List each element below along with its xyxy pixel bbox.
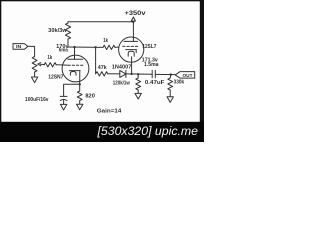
- wire R2 to V1 grid: [56, 64, 67, 66]
- pot wiper arrow: [38, 63, 44, 66]
- resistor R5 820 (cathode bias): [77, 84, 82, 104]
- svg-text:IN: IN: [16, 44, 21, 49]
- svg-text:47k: 47k: [98, 65, 108, 71]
- top B+ rail wire: [68, 21, 133, 23]
- wire IN to volume pot: [28, 46, 34, 56]
- wire 170v node run (V1 plate to R3): [68, 46, 103, 48]
- frame right edge: [200, 0, 204, 122]
- capacitor C1 100uF/16v (cathode bypass): [60, 96, 67, 104]
- resistor R6 120k/1w (cathode load): [136, 74, 141, 93]
- tube V1 12SN7 envelope: [62, 55, 89, 82]
- wire 47k branch vertical: [95, 47, 97, 74]
- V2 grid (dashed): [123, 45, 140, 47]
- wire cathode node to C1: [64, 84, 80, 96]
- resistor R2 1k (grid stopper V1): [44, 63, 56, 67]
- ground (330k): [167, 97, 173, 103]
- svg-text:6ma: 6ma: [59, 48, 69, 54]
- wire diode to cathode node: [126, 73, 152, 75]
- svg-text:330k: 330k: [174, 79, 185, 85]
- resistor R3 1k (grid stopper V2): [103, 45, 115, 49]
- ground (120k): [135, 93, 141, 99]
- node dot B+: [132, 21, 134, 23]
- svg-text:1k: 1k: [47, 55, 52, 61]
- white background: [0, 0, 204, 142]
- caption band: [0, 122, 204, 142]
- svg-text:1N4007: 1N4007: [112, 65, 132, 71]
- capacitor C2 0.47uF (output): [152, 70, 155, 77]
- V1 cathode: [69, 71, 80, 85]
- diode D1 1N4007: [120, 70, 126, 77]
- ground (820): [77, 104, 83, 110]
- svg-text:0.47uF: 0.47uF: [145, 80, 165, 86]
- svg-text:+350v: +350v: [125, 10, 147, 17]
- +350v supply arrow: [131, 17, 135, 21]
- svg-text:[530x320] upic.me: [530x320] upic.me: [97, 124, 199, 138]
- frame left edge: [0, 0, 1, 123]
- V2 cathode: [126, 50, 137, 74]
- wire pot bottom: [34, 72, 36, 77]
- IN connector J1: [13, 44, 28, 50]
- svg-text:100uF/16v: 100uF/16v: [25, 97, 49, 103]
- wire R3 to V2 grid: [115, 46, 119, 48]
- V1 plate: [68, 47, 83, 59]
- svg-text:30k/3w: 30k/3w: [48, 28, 67, 34]
- node dot V2 cathode: [131, 73, 133, 75]
- svg-text:Gain=14: Gain=14: [97, 108, 122, 114]
- wire 47k to diode: [108, 73, 120, 75]
- wire cap to output node: [155, 73, 175, 75]
- resistor R4 47k: [96, 72, 108, 76]
- svg-text:12SL7: 12SL7: [142, 44, 156, 50]
- svg-text:1.5ma: 1.5ma: [144, 62, 159, 68]
- frame top edge: [0, 0, 204, 1]
- ground (pot): [31, 77, 37, 83]
- wire wiper to R2: [43, 64, 46, 66]
- svg-text:12SN7: 12SN7: [48, 75, 63, 81]
- V2 plate: [124, 40, 138, 42]
- resistor R1 30k/3w (plate load): [65, 22, 70, 47]
- ground (C1): [60, 104, 66, 110]
- svg-text:120k/1w: 120k/1w: [113, 80, 131, 86]
- resistor R7 330k (output load): [168, 75, 173, 97]
- svg-text:1k: 1k: [103, 38, 108, 44]
- svg-text:OUT: OUT: [183, 73, 193, 79]
- node dot V1 cathode: [79, 83, 81, 85]
- node dot V1 plate tap: [73, 46, 75, 48]
- potentiometer VR1 (volume): [32, 57, 37, 73]
- V1 grid (dashed): [68, 64, 84, 66]
- tube V2 12SL7 envelope: [119, 37, 144, 62]
- svg-text:820: 820: [85, 93, 95, 99]
- node dot 120k tap: [137, 73, 139, 75]
- node dot output: [170, 73, 172, 75]
- OUT connector J2: [175, 72, 195, 79]
- wire B+ down to V2 plate: [132, 22, 134, 42]
- node dot 47k branch: [94, 46, 96, 48]
